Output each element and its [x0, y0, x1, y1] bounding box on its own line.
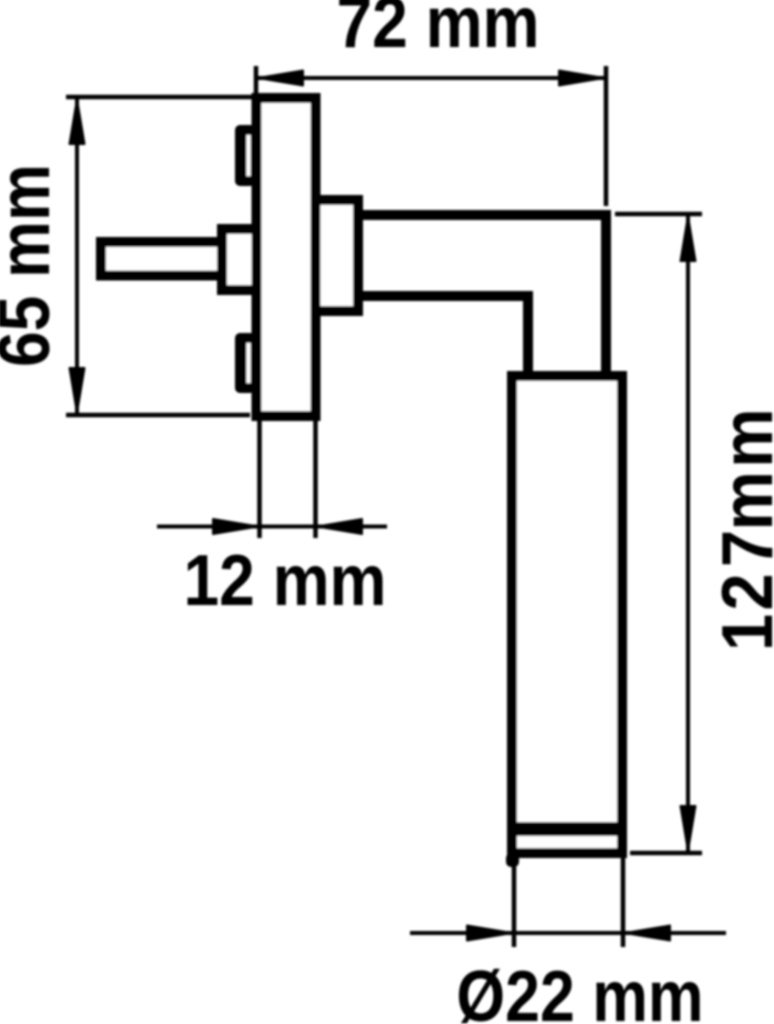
svg-text:65 mm: 65 mm: [0, 164, 65, 367]
svg-text:Ø22 mm: Ø22 mm: [456, 957, 703, 1024]
neck boss: [316, 200, 358, 311]
dim 12mm line: [157, 525, 387, 529]
dim 65mm bottom extension line: [66, 413, 250, 418]
dim 22mm right arrow: [625, 926, 670, 941]
dim 12mm right extension line: [313, 421, 318, 538]
dim 65mm top arrow: [70, 99, 85, 144]
dim 72mm right arrow: [559, 71, 604, 86]
grip cylinder: [512, 376, 622, 853]
svg-text:72 mm: 72 mm: [337, 0, 540, 63]
dim 127mm line: [686, 214, 690, 853]
dim 72mm left extension line: [254, 66, 259, 104]
svg-text:127mm: 127mm: [707, 405, 774, 651]
dim 65mm top extension line: [66, 95, 256, 100]
dim 127mm bottom arrow: [681, 806, 696, 851]
svg-text:12 mm: 12 mm: [184, 541, 387, 621]
dim 22mm line: [410, 931, 726, 935]
top clip: [235, 125, 255, 186]
spindle hub: [222, 229, 257, 290]
bottom clip: [235, 333, 255, 393]
dim 22mm left extension line: [512, 858, 517, 947]
dim 127mm top extension line: [615, 212, 702, 217]
dim 12mm left arrow: [213, 519, 258, 534]
dim 22mm right extension line: [621, 857, 626, 947]
dim 12mm right arrow: [317, 519, 362, 534]
dim 22mm left arrow: [467, 926, 512, 941]
dim 72mm right extension line: [604, 66, 609, 206]
dim 65mm bottom arrow: [70, 368, 85, 413]
dim 72mm left arrow: [258, 71, 303, 86]
dim 127mm bottom extension line: [630, 851, 702, 856]
grip bottom-left corner nub: [506, 853, 519, 867]
grip ring: [512, 822, 622, 836]
dim 12mm left extension line: [257, 421, 262, 538]
escutcheon plate: [257, 98, 316, 416]
handle arm inner edge: [358, 296, 528, 376]
dim 65mm line: [75, 97, 79, 415]
dim 72mm line: [256, 76, 606, 80]
spindle square shaft: [101, 242, 222, 276]
dim 127mm top arrow: [681, 216, 696, 261]
handle arm outer edge: [358, 215, 606, 376]
